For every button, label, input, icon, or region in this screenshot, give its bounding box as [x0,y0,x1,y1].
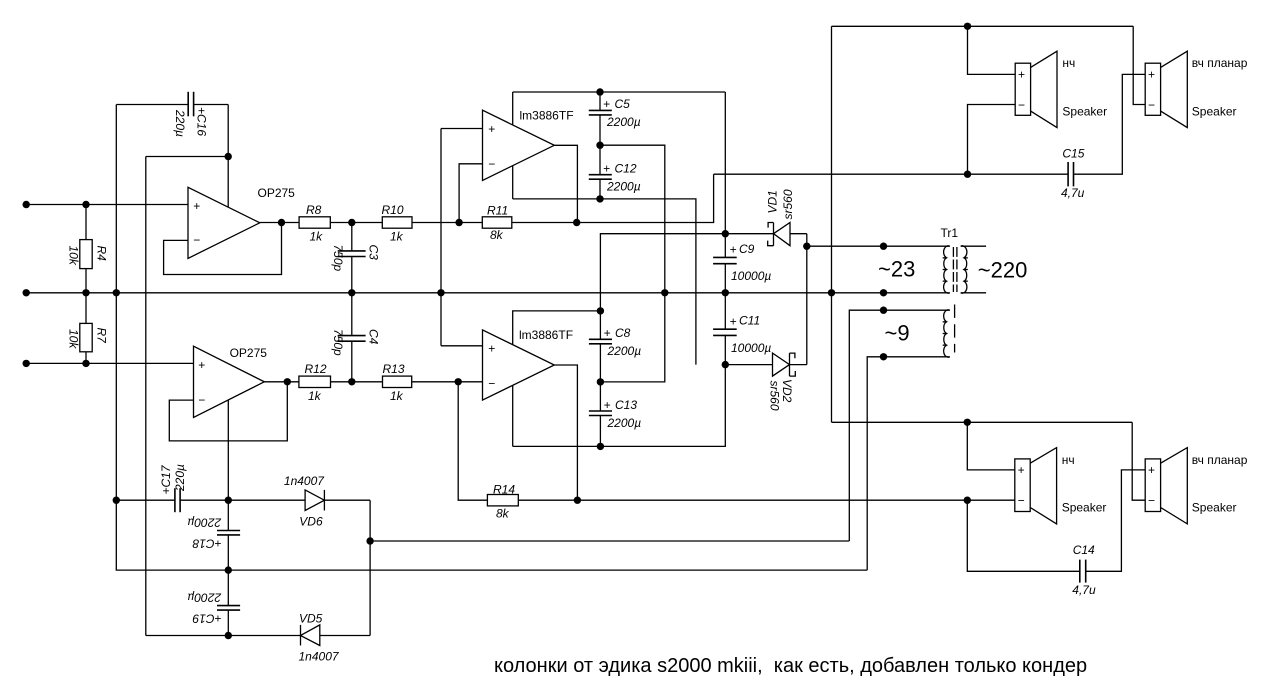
wire LF2 - down to C14 line [967,500,1080,571]
svg-text:нч: нч [1062,56,1075,70]
node C13 bottom on U4 -V rail [597,443,604,450]
svg-text:220µ: 220µ [173,109,187,137]
wire LF1 + lead [968,26,1016,74]
speaker LF1 нч [1015,51,1107,127]
svg-text:+: + [1148,463,1155,477]
svg-text:C11: C11 [739,314,760,328]
svg-text:750p: 750p [331,329,345,356]
svg-text:+: + [488,122,495,136]
node C16 plus / op-amp V+ junction [225,153,232,160]
wire op-amp U1 V+ pin [227,157,229,208]
node VD2 / C11 / -V junction [722,361,729,368]
wire HF1 - lead [1133,26,1145,104]
svg-text:+: + [730,243,737,257]
wire bottom speaker rail [832,421,1133,423]
svg-text:lm3886TF: lm3886TF [519,328,573,342]
capacitor C8 2200u [589,311,641,382]
svg-text:−: − [1148,98,1155,112]
svg-text:OP275: OP275 [230,346,268,360]
svg-text:Speaker: Speaker [1062,501,1107,515]
wire AC node to ~23 winding top [807,245,950,247]
svg-text:2200µ: 2200µ [607,416,642,430]
svg-text:−: − [1018,98,1025,112]
svg-text:R7: R7 [95,328,109,345]
wire op-amp U1 output [260,222,299,224]
node ground input terminal [23,289,30,296]
node C8/C13 midpoint [597,378,604,385]
svg-text:R4: R4 [95,246,109,262]
wire C15 to HF1 + [1074,74,1146,174]
wire R11 to U3 output node [512,222,577,224]
transformer Tr1 ~9 winding [885,305,955,358]
svg-text:10000µ: 10000µ [731,269,771,283]
wire U3 output rail to C15 [714,173,1069,175]
capacitor C3 750p [331,223,381,293]
resistor R4 10k [67,205,109,293]
resistor R11 8k [482,204,512,242]
svg-text:+: + [604,398,611,412]
diode VD6 1n4007 [228,474,370,529]
node C19 bottom junction [225,632,232,639]
node R7 bottom junction [82,360,89,367]
wire U3 -V rail to -V riser [513,199,696,365]
node transformer primary top junction [803,243,810,250]
svg-text:+C19: +C19 [192,612,221,626]
node AC tap junction [366,537,373,544]
svg-text:+: + [603,97,610,111]
speaker LF2 нч [1015,448,1107,524]
wire R13 to power amp U4 inverting input [412,381,483,383]
node C9/C11 on ground bus [722,289,729,296]
svg-text:lm3886TF: lm3886TF [520,109,574,123]
wire R8 to R10 [330,222,382,224]
node top rail / LF+ junction [964,23,971,30]
svg-text:C5: C5 [615,97,631,111]
wire C16 right plate down to +V node [227,105,229,157]
svg-text:sr560: sr560 [781,189,795,219]
node R11/output junction [573,219,580,226]
node input R terminal [23,360,30,367]
node ~23 top terminal [880,243,887,250]
svg-text:2200µ: 2200µ [187,515,222,529]
svg-text:1n4007: 1n4007 [284,474,325,488]
node C16 ground vertical on bus [113,289,120,296]
svg-text:R14: R14 [493,483,515,497]
wire LF2 - lead [967,499,1015,501]
wire + input ground vertical (U3 and U4) [440,129,442,346]
node C12 bottom / U3 V- rail [596,195,603,202]
svg-text:C13: C13 [615,398,637,412]
svg-text:R11: R11 [487,204,508,218]
wire VD5 +V line [146,635,301,637]
svg-text:+: + [1148,68,1155,82]
svg-text:2200µ: 2200µ [607,344,642,358]
diode VD5 1n4007 [299,612,371,664]
wire left +V vertical down to VD5 line [145,157,147,636]
wire C5/C12 midpoint to ground return [600,145,665,293]
wire U4 -V rail to VD2 node [513,365,726,447]
svg-text:+: + [1018,68,1025,82]
node speaker ground riser on bus [828,289,835,296]
speaker HF1 вч планар [1145,51,1247,127]
svg-text:вч планар: вч планар [1192,56,1248,70]
wire U3 V+ pin riser [512,92,514,125]
svg-text:2200µ: 2200µ [187,590,222,604]
wire R12 to R13 [331,381,383,383]
wire +V node to left vertical [146,156,228,158]
node ~9 bottom terminal [880,353,887,360]
node C4 bottom junction [348,378,355,385]
capacitor C12 2200u [589,145,641,199]
svg-text:−: − [193,233,200,247]
node LF2 - junction [964,497,971,504]
node C5 top on +V rail [596,88,603,95]
wire op-amp U2 feedback loop [169,382,287,441]
node C17 ground junction [113,497,120,504]
speaker HF2 вч планар [1145,448,1247,524]
wire U3 output line to speaker rail riser [577,174,714,222]
svg-text:+: + [603,162,610,176]
node R4 bottom on bus [82,289,89,296]
svg-text:нч: нч [1062,453,1075,467]
wire op-amp U2 V- pin down to -V line [227,400,229,500]
node C3/C4 on ground bus [348,289,355,296]
svg-text:Tr1: Tr1 [941,226,959,240]
svg-text:1k: 1k [390,389,404,403]
svg-text:+C16: +C16 [195,107,209,136]
wire input R to op-amp U2 + [26,362,193,364]
svg-text:2200µ: 2200µ [606,180,641,194]
node C18/C19 midpoint [225,566,232,573]
svg-text:R10: R10 [382,203,404,217]
svg-text:R12: R12 [305,362,327,376]
capacitor C15 4.7u [1061,147,1085,201]
capacitor C11 10000u [713,293,771,365]
capacitor C9 10000u [713,234,771,293]
node C3 top junction [348,219,355,226]
wire op-amp U1 feedback loop [164,223,282,275]
op-amp U1 OP275 [188,186,295,258]
wire U4 V- pin drop [512,385,514,446]
wire U3 output down to feedback node [554,145,577,222]
wire ~9 winding top to left riser [849,310,950,541]
wire +V line to VD1 node [600,234,725,311]
wire HF2 - lead [1132,422,1145,500]
svg-text:sr560: sr560 [768,381,782,411]
svg-text:1k: 1k [310,230,324,244]
wire R14 to output node [518,499,577,501]
wire U4 output line to bottom speakers [577,499,967,501]
svg-text:−: − [198,393,205,407]
svg-text:4,7u: 4,7u [1072,583,1096,597]
resistor R7 10k [67,293,109,364]
svg-text:C3: C3 [367,245,381,261]
node LF1 - on output rail [964,171,971,178]
resistor R14 8k [487,483,518,521]
capacitor C4 750p [331,293,381,382]
wire C8/C13 midpoint ground return [600,293,664,382]
svg-text:10k: 10k [67,246,81,266]
wire top speaker rail [832,25,1134,27]
svg-text:+: + [193,199,200,213]
svg-text:+: + [488,342,495,356]
svg-text:220µ: 220µ [173,464,187,492]
capacitor C16 220u [116,92,228,137]
wire U4 + input [441,345,483,347]
capacitor C18 2200u [187,500,240,570]
svg-text:VD5: VD5 [299,612,323,626]
svg-text:10000µ: 10000µ [731,341,771,355]
svg-text:R8: R8 [306,203,322,217]
svg-text:+: + [730,314,737,328]
wire LF1 - lead [968,105,1016,175]
wire ~9 winding bottom to left riser [867,357,950,570]
wire U4 V+ pin line [513,311,601,345]
power amp U3 lm3886TF [483,109,574,181]
wire +V rail top [513,91,726,93]
node R13 / U4 inverting input junction [455,378,462,385]
node ~9 top terminal [880,307,887,314]
wire +V rail riser [724,92,726,234]
svg-text:R13: R13 [383,362,405,376]
svg-text:8k: 8k [490,228,504,242]
svg-text:−: − [488,377,495,391]
node C18 top / VD6 line junction [225,497,232,504]
svg-text:4,7u: 4,7u [1061,186,1085,200]
wire R13 node down to R14 [458,382,487,500]
resistor R8 1k [299,203,330,244]
capacitor C14 4.7u [1072,543,1096,597]
svg-text:+: + [198,358,205,372]
wire AC tap to ~9 top riser [370,540,849,542]
node U4 V+ rail junction [597,307,604,314]
svg-text:+: + [604,326,611,340]
node C5/C12 midpoint [596,142,603,149]
node bottom rail / LF2 junction [964,419,971,426]
svg-text:8k: 8k [496,507,510,521]
node input L terminal [23,201,30,208]
svg-text:VD6: VD6 [299,515,323,529]
svg-text:C4: C4 [367,329,381,345]
wire ground bus [26,292,950,294]
svg-text:Speaker: Speaker [1062,105,1107,119]
svg-text:10k: 10k [67,329,81,349]
wire -V op-amp line / C17 line [116,499,175,501]
node + input vertical on ground bus [437,289,444,296]
wire U3 V- pin drop [512,166,514,199]
power amp U4 lm3886TF [483,328,574,400]
svg-text:1k: 1k [390,230,404,244]
svg-text:C8: C8 [615,326,631,340]
svg-text:2200µ: 2200µ [606,115,641,129]
svg-text:Speaker: Speaker [1192,501,1237,515]
svg-text:C14: C14 [1073,543,1095,557]
svg-text:вч планар: вч планар [1192,453,1248,467]
svg-text:~9: ~9 [885,321,910,346]
resistor R12 1k [299,362,331,403]
node VD1 / C9 / +V junction [722,230,729,237]
diode VD1 sr560 [725,189,807,246]
svg-text:+C17: +C17 [159,464,173,494]
svg-text:~220: ~220 [978,257,1028,282]
wire C14 to HF2 + [1086,470,1146,571]
capacitor C19 2200u [187,570,240,635]
svg-text:+C18: +C18 [192,537,221,551]
wire R10 to R11 node [412,222,482,224]
svg-text:C9: C9 [739,242,755,256]
node R10/R11 inverting input junction [455,219,462,226]
transformer Tr1 [878,226,1027,293]
capacitor C17 220u [159,464,228,512]
wire op-amp U2 output [264,381,299,383]
wire speaker ground riser [831,26,833,422]
svg-text:C12: C12 [615,162,637,176]
node R4 top junction [82,201,89,208]
wire C16 left plate down to ground bus [115,105,117,293]
resistor R13 1k [383,362,412,403]
svg-text:VD1: VD1 [766,190,780,213]
wire input L to op-amp U1 + [26,204,188,206]
op-amp U2 OP275 [194,346,268,417]
wire LF2 + lead [967,422,1015,470]
wire ground vertical bus to C18/C19 midline [116,293,867,570]
node op-amp U2 output [284,378,291,385]
svg-text:C15: C15 [1062,147,1084,161]
node op-amp U1 output [278,219,285,226]
svg-text:−: − [1148,494,1155,508]
svg-text:~23: ~23 [878,256,915,281]
node mid-cap ground return on bus [661,289,668,296]
node ~23 bottom terminal [880,289,887,296]
svg-text:колонки от эдика s2000 mkiii,: колонки от эдика s2000 mkiii, как есть, … [494,655,1087,677]
wire U3 + input from ground vertical [441,128,483,130]
resistor R10 1k [382,203,413,244]
svg-text:750p: 750p [331,245,345,272]
svg-text:−: − [1018,494,1025,508]
diode VD2 sr560 [725,353,807,411]
svg-text:+: + [1018,463,1025,477]
capacitor C13 2200u [589,382,641,447]
wire VD6/VD5 AC riser [369,500,371,635]
wire U3 - input to R11 node [459,164,482,223]
node R14/U4 output junction [574,497,581,504]
svg-text:1k: 1k [308,389,322,403]
capacitor C5 2200u [589,92,641,145]
wire VD1 anode down to VD2 cathode (AC node) [806,234,808,365]
svg-text:−: − [488,157,495,171]
svg-text:Speaker: Speaker [1192,105,1237,119]
svg-text:1n4007: 1n4007 [299,650,340,664]
wire U4 output down to R14 line [554,365,577,500]
svg-text:OP275: OP275 [258,186,296,200]
